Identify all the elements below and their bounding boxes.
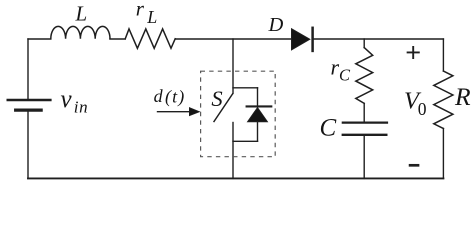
plus sign output polarity (408, 47, 419, 58)
wire between L and rL (110, 38, 125, 40)
wire internal bottom branch (233, 140, 258, 142)
node rC branch top (363, 39, 365, 48)
svg-text:v: v (61, 86, 73, 113)
svg-text:(t): (t) (165, 86, 185, 107)
svg-text:S: S (211, 86, 222, 111)
svg-text:in: in (74, 98, 88, 117)
svg-text:L: L (75, 2, 88, 26)
wire left vertical upper (27, 39, 29, 99)
svg-text:C: C (320, 114, 337, 141)
battery vin top plate (8, 99, 51, 101)
svg-text:r: r (136, 0, 145, 20)
svg-text:d: d (154, 86, 164, 106)
switch S lever (214, 94, 233, 122)
wire rC to capacitor (363, 103, 365, 121)
capacitor C bottom plate (343, 134, 387, 136)
svg-text:0: 0 (418, 99, 427, 119)
wire body-diode lower leg (257, 122, 259, 142)
wire diode to top-right corner (313, 38, 444, 40)
switch branch wire lower (232, 123, 234, 179)
capacitor C top plate (343, 121, 387, 123)
inductor L (51, 26, 110, 38)
diode D cathode bar (311, 28, 314, 51)
wire capacitor to bottom rail (363, 136, 365, 178)
wire body-diode upper leg (257, 88, 259, 106)
switch branch wire upper (232, 39, 234, 93)
svg-text:R: R (454, 82, 471, 111)
wire right vertical lower (442, 129, 444, 179)
arrow d(t) control (158, 111, 191, 113)
svg-text:C: C (339, 66, 351, 85)
battery vin bottom plate (16, 108, 41, 111)
body diode triangle (248, 108, 268, 122)
resistor R_L zigzag (125, 29, 175, 48)
resistor r_C zigzag (356, 48, 373, 104)
minus sign output polarity (410, 164, 418, 167)
wire bottom rail (28, 177, 443, 179)
wire right vertical upper (442, 39, 444, 71)
wire rL to diode D (175, 38, 291, 40)
svg-text:L: L (146, 7, 157, 27)
dashed box switch module (201, 71, 276, 157)
body diode cathode bar (247, 105, 272, 107)
diode D triangle (292, 29, 310, 50)
svg-text:D: D (268, 14, 284, 36)
wire left vertical lower (27, 112, 29, 179)
resistor R zigzag (434, 71, 453, 129)
wire internal top branch (233, 87, 258, 89)
wire top-left horizontal (28, 38, 51, 40)
